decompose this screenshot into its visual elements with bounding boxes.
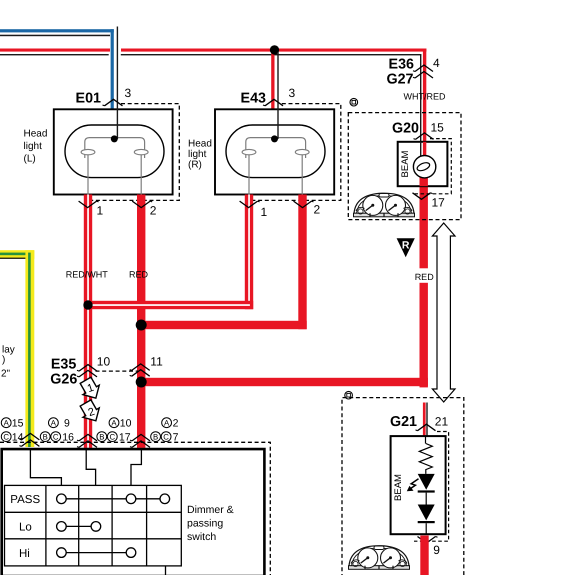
svg-text:E36: E36 <box>389 56 414 72</box>
wire WHT/RED inside G20 box <box>420 142 428 186</box>
svg-text:Hi: Hi <box>19 548 30 560</box>
svg-text:G20: G20 <box>392 120 419 136</box>
wire RED thin into G21 pin 21 <box>423 403 428 437</box>
switch position arrow 1 <box>77 376 104 403</box>
connector index symbol (G20) <box>350 98 358 106</box>
pin 2 connector caret E01 <box>132 201 152 208</box>
wire between LEDs (G21) <box>425 493 427 505</box>
svg-text:10: 10 <box>120 418 132 430</box>
svg-text:B: B <box>43 433 48 442</box>
svg-text:E35: E35 <box>51 356 76 372</box>
svg-text:RED: RED <box>129 270 149 280</box>
svg-text:C: C <box>163 433 169 442</box>
node junction dot RED/WHT net <box>83 300 92 309</box>
pin 15 connector caret (G20) <box>414 133 434 140</box>
pin label BC16 <box>40 432 74 444</box>
svg-text:(R): (R) <box>188 159 202 170</box>
meter G21 dashed box <box>342 398 464 578</box>
wire RED thick vertical from E01 pin 2 down to switch <box>137 195 145 448</box>
connector E35/G26 caret pair on RED wire <box>130 364 150 376</box>
pin 21 connector caret (G21) <box>416 424 436 431</box>
svg-text:G27: G27 <box>386 72 413 88</box>
wire black tracer into E43 pin 3 <box>277 52 278 139</box>
svg-text:C: C <box>3 433 9 442</box>
svg-text:R: R <box>402 240 410 252</box>
svg-text:(L): (L) <box>24 154 36 165</box>
bulb symbol E01 <box>65 125 164 195</box>
svg-text:2": 2" <box>1 368 11 379</box>
pin 17 connector caret (G20) <box>413 193 433 200</box>
svg-text:PASS: PASS <box>10 494 40 506</box>
pin label C14 <box>1 432 23 444</box>
bulb symbol E43 <box>226 125 325 195</box>
wire (switch internal, from RED/WHT) <box>86 449 95 485</box>
svg-text:RED: RED <box>415 272 435 282</box>
LED diode 2 (G21) <box>418 505 435 524</box>
switch contacts Lo row <box>57 522 101 532</box>
svg-text:): ) <box>2 354 5 365</box>
svg-text:3: 3 <box>125 86 132 100</box>
svg-text:G26: G26 <box>50 372 77 388</box>
headlight E43 dashed outline <box>251 104 341 201</box>
switch contacts Hi row <box>57 548 136 558</box>
svg-text:passing: passing <box>187 517 223 529</box>
svg-text:Head: Head <box>24 129 48 140</box>
svg-text:1: 1 <box>97 203 104 217</box>
svg-text:BEAM: BEAM <box>400 150 411 177</box>
pin 9 connector caret (G21) <box>418 537 438 544</box>
connector E35/G26 caret pair on RED/WHT wire <box>77 365 97 377</box>
svg-text:B: B <box>99 433 104 442</box>
page reference marker R <box>397 238 415 257</box>
wire YEL/GRN vertical down to switch <box>25 250 34 447</box>
node junction dot on top red wire <box>270 45 279 54</box>
wire YEL/GRN horizontal from left edge <box>0 250 34 259</box>
svg-text:9: 9 <box>64 418 70 430</box>
svg-text:A: A <box>4 419 10 428</box>
beam indicator dashed inner outline (G21) <box>414 432 449 542</box>
beam indicator LED box (G21) <box>391 436 446 534</box>
wire RED horizontal top (left segment before crossover gap) <box>0 49 110 56</box>
connector E36/G27 double caret <box>413 65 433 78</box>
svg-text:4: 4 <box>433 56 440 70</box>
wire RED/WHT-RED horizontal top (right of crossover to corner) <box>121 49 427 56</box>
wire LED2 to box bottom (G21) <box>425 523 427 534</box>
svg-text:15: 15 <box>431 120 445 134</box>
lamp symbol (G20) <box>413 156 435 178</box>
svg-text:17: 17 <box>432 196 446 210</box>
instrument cluster icon (G20) <box>354 193 415 217</box>
headlight E01 box <box>54 109 173 194</box>
svg-text:light: light <box>24 141 43 152</box>
svg-text:A: A <box>111 419 117 428</box>
connector index symbol (G21) <box>345 391 353 399</box>
svg-text:Lo: Lo <box>19 522 32 534</box>
pin 3 connector caret E01 <box>103 99 123 106</box>
wire (switch internal, from YEL) <box>30 449 61 485</box>
continuation double-headed hollow arrow <box>432 223 455 402</box>
svg-text:G21: G21 <box>390 414 417 430</box>
svg-text:E43: E43 <box>241 90 266 106</box>
svg-text:light: light <box>188 149 207 160</box>
pin label BC7 <box>151 432 179 444</box>
svg-text:2: 2 <box>314 203 321 217</box>
headlight E43 box <box>215 109 334 194</box>
wire WHT/RED vertical to E36/G27 and G20 <box>420 49 426 157</box>
svg-text:Dimmer &: Dimmer & <box>187 504 234 516</box>
svg-text:2: 2 <box>173 418 179 430</box>
svg-text:1: 1 <box>261 205 268 219</box>
svg-text:A: A <box>51 419 57 428</box>
LED emission arrow (G21) <box>408 479 419 491</box>
LED diode 1 (G21) <box>418 474 435 493</box>
wire RED thick from E43 pin 2 (down and left) <box>141 195 307 330</box>
svg-text:Head: Head <box>188 139 212 150</box>
svg-text:3: 3 <box>289 86 296 100</box>
svg-text:15: 15 <box>12 418 24 430</box>
node bulb contact dot E43 <box>271 135 278 142</box>
svg-text:A: A <box>164 419 170 428</box>
node junction dot RED net upper <box>136 320 147 331</box>
svg-text:11: 11 <box>150 355 163 369</box>
resistor (G21) <box>419 436 432 474</box>
wire RED/WHT from E43 pin 1 (down and left) <box>88 195 253 310</box>
svg-text:9: 9 <box>433 543 440 557</box>
node bulb contact dot E01 <box>111 135 118 142</box>
wire black tracer of BLU into E01 pin 3 <box>117 27 118 139</box>
connector carets at switch (RED/WHT wire) <box>77 434 97 447</box>
svg-text:E01: E01 <box>76 90 101 106</box>
pin label A2 <box>162 418 179 430</box>
wire RED/WHT vertical from E01 pin 1 down to switch <box>84 195 92 448</box>
pin label A15 <box>1 418 23 430</box>
pin 2 connector caret E43 <box>294 201 314 208</box>
svg-text:10: 10 <box>97 355 111 369</box>
switch contacts PASS row <box>57 494 170 504</box>
pin label A10 <box>109 418 132 430</box>
headlight E01 dashed outline <box>90 104 179 201</box>
dimmer and passing switch box <box>2 449 265 576</box>
switch contact grid <box>5 485 182 566</box>
pin label BC17 <box>97 432 131 444</box>
connector dashed link 10-11 <box>96 370 139 372</box>
svg-text:C: C <box>109 433 115 442</box>
meter G20 dashed box <box>348 113 461 220</box>
svg-text:B: B <box>153 433 158 442</box>
pin 1 connector caret E01 <box>79 201 99 208</box>
svg-text:RED/WHT: RED/WHT <box>66 270 108 280</box>
wire BLU horizontal (to E01 pin 3) <box>0 29 114 36</box>
connector carets at switch (RED wire) <box>130 434 150 447</box>
svg-text:21: 21 <box>435 414 449 428</box>
wire BLU vertical drop to E01 <box>111 29 114 109</box>
node junction dot RED net lower <box>136 377 147 388</box>
pin 1 connector caret E43 <box>240 201 260 208</box>
svg-text:C: C <box>53 433 59 442</box>
instrument cluster icon (G21) <box>349 546 410 570</box>
wire RED thick from G20 pin 17 down and left to junction <box>141 186 428 387</box>
label RED (on G20-G21 wire, white halo) <box>415 268 435 283</box>
svg-text:WHT/RED: WHT/RED <box>404 91 446 101</box>
connector carets at switch (YEL wire) <box>19 433 39 446</box>
wire red drop from junction to E43 pin 3 <box>271 51 274 109</box>
pin 3 connector caret E43 <box>263 99 283 106</box>
svg-text:BEAM: BEAM <box>393 474 404 501</box>
beam indicator U=G20 dashed inner outline <box>412 139 451 194</box>
combination switch dashed outline <box>0 442 270 575</box>
switch position arrow 2 <box>77 398 104 425</box>
svg-text:2: 2 <box>150 203 157 217</box>
wire (switch internal, from RED) <box>131 449 141 485</box>
beam indicator lamp box (G20) <box>398 142 448 186</box>
wire exit from switch grid bottom <box>165 566 167 575</box>
wire RED thick below G21 <box>420 536 428 576</box>
pin label A9 <box>49 418 71 430</box>
svg-text:switch: switch <box>187 531 216 543</box>
